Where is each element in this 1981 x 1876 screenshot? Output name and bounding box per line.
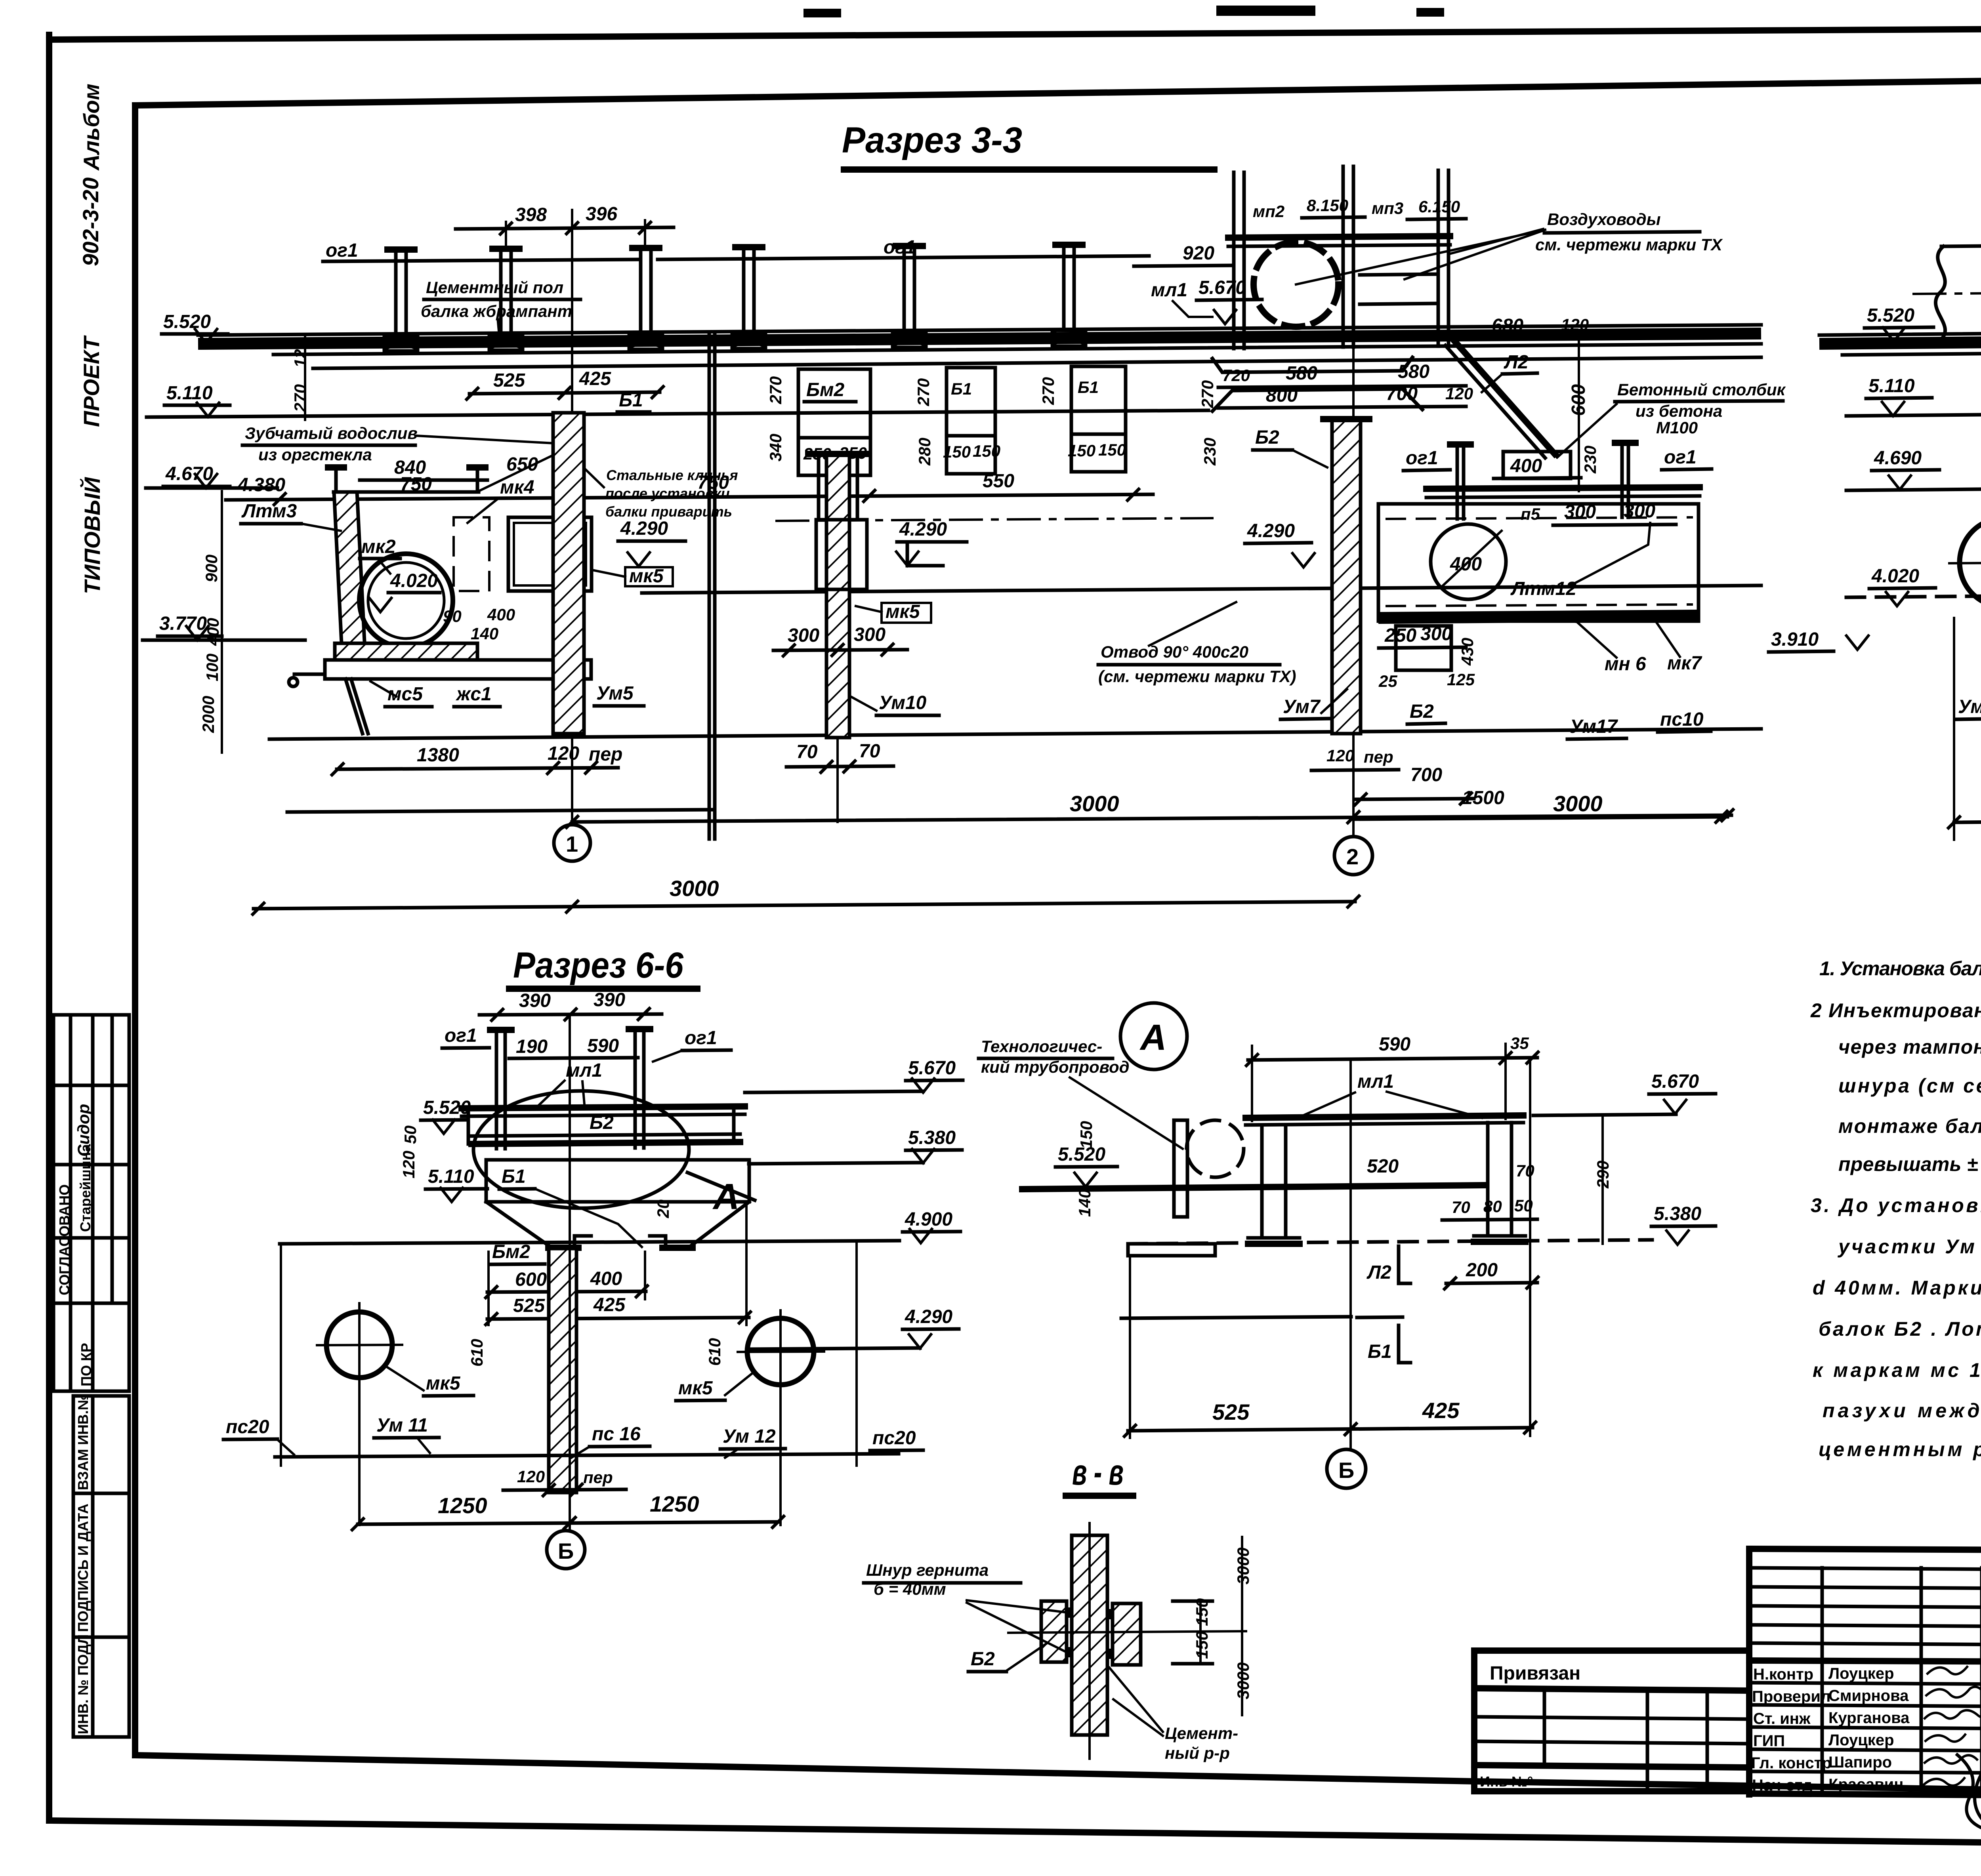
svg-text:270: 270 [291, 384, 309, 412]
svg-text:270: 270 [1198, 380, 1217, 408]
svg-text:мк5: мк5 [678, 1378, 713, 1399]
level line 4.900 long [280, 1241, 899, 1244]
text Vozduhovody [1405, 210, 1723, 279]
dims 150 150 3000 v-v [1173, 1537, 1252, 1715]
left margin vertical captions [78, 84, 105, 594]
lower tank right [1378, 501, 1699, 621]
label Um10 [852, 692, 939, 715]
label mk4 [468, 477, 534, 523]
svg-text:(см. чертежи марки ТХ): (см. чертежи марки ТХ) [1098, 667, 1296, 686]
label Ltm3 [241, 501, 341, 531]
level line 4.690 (7-7) [1846, 488, 1981, 490]
svg-text:ог1: ог1 [445, 1025, 477, 1046]
svg-text:к маркам мс 13 (см лист 17) .: к маркам мс 13 (см лист 17) . После уста… [1813, 1359, 1981, 1381]
svg-text:Лоуцкер: Лоуцкер [1828, 1731, 1894, 1749]
svg-text:5.670: 5.670 [1651, 1071, 1699, 1092]
svg-text:700: 700 [1386, 383, 1418, 404]
level line 5.110 [147, 410, 1208, 417]
svg-text:90: 90 [443, 607, 462, 625]
dim 390 390 [479, 989, 662, 1022]
svg-text:8.150: 8.150 [1307, 196, 1348, 215]
svg-text:цементным раствором.: цементным раствором. [1819, 1438, 1981, 1460]
svg-text:мк7: мк7 [1667, 653, 1702, 674]
label B1 leader [499, 1166, 642, 1247]
left slab v-v [1041, 1601, 1067, 1662]
svg-text:ог1: ог1 [1664, 447, 1697, 468]
svg-text:300: 300 [788, 625, 819, 646]
svg-text:20: 20 [654, 1199, 672, 1218]
svg-text:525: 525 [493, 370, 525, 391]
wall top posts [334, 467, 338, 492]
svg-text:Воздуховоды: Воздуховоды [1547, 210, 1661, 229]
concrete pad 400 [1494, 452, 1581, 479]
svg-text:Ум 7: Ум 7 [1958, 696, 1981, 717]
svg-text:жс1: жс1 [455, 684, 492, 705]
svg-text:190: 190 [516, 1036, 548, 1057]
svg-text:4.020: 4.020 [1871, 566, 1919, 587]
labels mk5 [386, 1367, 755, 1401]
dim 590 35 [1245, 1034, 1539, 1121]
svg-text:5.520: 5.520 [1867, 305, 1914, 326]
svg-text:4.670: 4.670 [165, 463, 213, 484]
title Razrez 6-6 [509, 945, 697, 989]
dim 190 590 [509, 1035, 638, 1058]
svg-text:балок Б2 . Лотки через закладн: балок Б2 . Лотки через закладные детали … [1819, 1318, 1981, 1340]
svg-text:Бм2: Бм2 [806, 379, 844, 400]
svg-text:пс 16: пс 16 [592, 1424, 641, 1445]
label ml1 [539, 1060, 602, 1105]
svg-text:5.520: 5.520 [423, 1097, 471, 1118]
text Zubchaty vodosliv [242, 424, 575, 490]
big circles 7-7 [1949, 515, 1981, 607]
svg-text:270: 270 [1039, 377, 1057, 405]
svg-text:3.770: 3.770 [159, 613, 207, 634]
slab band 7-7 [1819, 329, 1981, 355]
svg-text:150: 150 [1077, 1121, 1095, 1149]
level 4.290 step [895, 519, 967, 566]
svg-text:Ум10: Ум10 [879, 692, 927, 713]
axis line B A [1349, 1062, 1352, 1450]
main frame bottom [135, 1755, 1981, 1798]
svg-text:150: 150 [1098, 440, 1126, 459]
labels ms5 zhs1 Um5 [370, 681, 644, 707]
svg-text:3.910: 3.910 [1771, 629, 1819, 650]
label mk2 [360, 536, 400, 574]
top edge scan marks [803, 9, 841, 17]
level 4.020 in circle [368, 570, 440, 612]
svg-text:ВЗАМ ИНВ.№: ВЗАМ ИНВ.№ [75, 1394, 91, 1490]
trapezoid haunch under slab right [1212, 357, 1422, 411]
svg-text:300: 300 [854, 624, 886, 645]
svg-text:ГИП: ГИП [1753, 1732, 1785, 1750]
svg-text:Цементный пол: Цементный пол [426, 278, 563, 297]
floor slab [289, 660, 591, 686]
svg-text:398: 398 [515, 204, 547, 225]
dim line 4.380 750 750 550 [226, 471, 1153, 506]
axis circle B 6-6 [547, 1531, 585, 1569]
svg-text:превышать ± 5мм.: превышать ± 5мм. [1838, 1153, 1981, 1175]
level 3.770 [158, 613, 222, 640]
svg-text:Н.контр: Н.контр [1753, 1666, 1813, 1683]
dims 120per 700 1500 [1311, 746, 1728, 824]
concrete beam body 6-6 [486, 1160, 749, 1248]
svg-text:120: 120 [1326, 746, 1354, 765]
svg-text:ТИПОВЫЙ: ТИПОВЫЙ [80, 477, 105, 594]
axis circle 2 [1334, 837, 1372, 875]
svg-text:120: 120 [548, 743, 579, 764]
svg-text:300: 300 [1624, 501, 1655, 522]
level 5.520 A [1055, 1144, 1117, 1187]
text Otvod 90 [1098, 602, 1296, 686]
level line 3.770 [143, 639, 305, 642]
title Razrez 3-3 [842, 120, 1214, 170]
svg-text:Б1: Б1 [502, 1166, 526, 1187]
svg-text:590: 590 [587, 1035, 619, 1056]
svg-text:Зубчатый водослив: Зубчатый водослив [245, 424, 418, 442]
svg-text:6.150: 6.150 [1418, 197, 1460, 216]
svg-text:Б: Б [1338, 1458, 1354, 1483]
level 5.380 A [1651, 1203, 1716, 1245]
dim 1250 1250 6-6 [351, 1491, 785, 1531]
svg-text:Б2: Б2 [1410, 701, 1434, 722]
svg-text:Ум17: Ум17 [1570, 716, 1618, 737]
svg-text:70: 70 [796, 742, 818, 763]
hanging beams Bm2 B1 B1 [766, 366, 1219, 475]
svg-text:150: 150 [943, 442, 971, 461]
verticals 6-6 [281, 1014, 857, 1529]
svg-text:140: 140 [1075, 1189, 1094, 1217]
svg-text:Б1: Б1 [1078, 378, 1099, 397]
svg-text:Инв №°: Инв №° [1480, 1773, 1533, 1790]
svg-text:Бетонный столбик: Бетонный столбик [1617, 380, 1786, 399]
svg-text:Б1: Б1 [951, 379, 972, 398]
svg-text:1250: 1250 [650, 1491, 699, 1516]
svg-text:Курганова: Курганова [1828, 1709, 1910, 1727]
labels mn6 mk7 [1553, 620, 1702, 675]
mid line A [1121, 1317, 1351, 1318]
svg-text:425: 425 [1422, 1398, 1460, 1423]
svg-text:Б1: Б1 [619, 390, 643, 411]
labels Um7 Um17 ps10 [1281, 689, 1711, 739]
outer thick box [1749, 1549, 1981, 1552]
level 4.290 left arrow [1245, 520, 1315, 567]
svg-text:400: 400 [1510, 456, 1542, 477]
svg-text:150: 150 [973, 442, 1000, 460]
lower overall dim 3000 [252, 876, 1360, 915]
solid insert rect mk5 [508, 517, 592, 591]
title v-v [1066, 1452, 1133, 1496]
diagonal strut ms5 [345, 679, 368, 734]
svg-text:через тампонажные трубочки пос: через тампонажные трубочки после проклад… [1838, 1036, 1981, 1058]
level 4.290 mark [618, 518, 685, 566]
svg-text:300: 300 [1420, 623, 1452, 644]
level line 4.670 [146, 486, 277, 490]
svg-text:3000: 3000 [1070, 791, 1119, 816]
svg-text:700: 700 [1410, 765, 1442, 785]
svg-text:пс20: пс20 [226, 1417, 269, 1438]
svg-text:Ум5: Ум5 [596, 683, 634, 704]
svg-text:400: 400 [590, 1268, 622, 1289]
right-side levels between drawings [745, 1058, 963, 1349]
svg-text:400: 400 [204, 618, 222, 646]
svg-text:120: 120 [291, 340, 309, 368]
level 5.520 [162, 311, 228, 343]
svg-text:140: 140 [471, 624, 498, 643]
svg-text:920: 920 [1183, 243, 1214, 264]
tank floor hatch [335, 643, 477, 660]
dim 120 per 6-6 [503, 1467, 626, 1497]
dim 920 and 5.670 [1134, 243, 1262, 324]
svg-text:525: 525 [1212, 1399, 1250, 1424]
svg-text:мк4: мк4 [500, 477, 534, 498]
beam assembly 6-6 [462, 1106, 745, 1144]
svg-text:пер: пер [583, 1468, 613, 1487]
svg-text:4.290: 4.290 [1247, 520, 1295, 541]
axis line 1 [571, 210, 573, 823]
svg-text:580: 580 [1398, 361, 1429, 382]
beam top flange A [1246, 1115, 1523, 1125]
svg-text:120: 120 [1445, 384, 1473, 403]
dim 600 400 / 525 425 [485, 1204, 752, 1326]
svg-text:230: 230 [1581, 446, 1599, 474]
svg-text:5.380: 5.380 [1654, 1203, 1701, 1224]
svg-text:650: 650 [506, 454, 538, 475]
I-beam webs A [1248, 1123, 1525, 1244]
svg-text:Стальные клинья: Стальные клинья [606, 467, 738, 483]
svg-text:70: 70 [1452, 1198, 1470, 1216]
svg-text:125: 125 [1447, 670, 1475, 689]
hatched wall v-v [1072, 1523, 1107, 1759]
svg-text:Нач отд: Нач отд [1752, 1777, 1812, 1794]
svg-text:мп3: мп3 [1372, 199, 1403, 217]
svg-text:900: 900 [202, 555, 221, 582]
svg-text:Ум 11: Ум 11 [376, 1415, 428, 1436]
svg-text:610: 610 [705, 1338, 724, 1366]
text cementny r-r [1109, 1668, 1238, 1762]
rotated 610 dims [468, 1338, 724, 1367]
central hatched column 6-6 [549, 1249, 576, 1493]
svg-text:кий трубопровод: кий трубопровод [981, 1058, 1130, 1076]
svg-text:5.110: 5.110 [166, 383, 213, 404]
svg-text:1. Установка балок Б1,Б2 произ: 1. Установка балок Б1,Б2 производится с … [1819, 957, 1981, 980]
small dims 90 400 200 140 [443, 604, 586, 643]
svg-text:мк5: мк5 [886, 601, 920, 622]
outer border top [49, 26, 1981, 40]
small rotated 50 120 [399, 1125, 420, 1178]
axis circle B A [1327, 1449, 1366, 1488]
detail ellipse A [473, 1091, 755, 1217]
svg-text:мл1: мл1 [566, 1060, 602, 1081]
svg-text:270: 270 [766, 376, 785, 404]
svg-text:80: 80 [1483, 1197, 1502, 1216]
svg-text:270: 270 [914, 378, 933, 406]
svg-text:25: 25 [1378, 672, 1397, 690]
outer border left [46, 35, 52, 1821]
svg-text:Шапиро: Шапиро [1828, 1754, 1892, 1771]
svg-text:396: 396 [586, 204, 617, 225]
svg-text:мп2: мп2 [1253, 202, 1284, 221]
svg-text:балка жбрампант: балка жбрампант [421, 302, 572, 320]
svg-text:800: 800 [1266, 385, 1298, 406]
svg-text:СОГЛАСОВАНО: СОГЛАСОВАНО [56, 1184, 73, 1295]
svg-text:3000: 3000 [1553, 791, 1603, 816]
svg-text:мк5: мк5 [426, 1373, 461, 1394]
svg-text:Бм2: Бм2 [492, 1241, 530, 1262]
ceiling slab band [198, 325, 1761, 368]
label mk5 [594, 566, 673, 587]
svg-text:из бетона: из бетона [1636, 402, 1722, 420]
outer border bottom [49, 1821, 1981, 1849]
svg-text:Ум7: Ум7 [1283, 696, 1321, 717]
main frame left [132, 105, 138, 1755]
wall joint double vertical at x1790 [709, 335, 715, 839]
svg-text:ный р-р: ный р-р [1165, 1744, 1230, 1762]
level 4.670 [163, 463, 230, 488]
level 4.290 long line [642, 585, 1761, 593]
right hatched column Um5 [553, 413, 584, 734]
diagonal strut L2 [1445, 341, 1555, 458]
svg-text:Ум 12: Ум 12 [723, 1426, 776, 1447]
svg-text:ог1: ог1 [685, 1028, 717, 1049]
dim 525 425 [466, 368, 664, 400]
svg-text:590: 590 [1379, 1034, 1410, 1055]
svg-text:Привязан: Привязан [1490, 1663, 1580, 1684]
axis line 2 [1352, 277, 1355, 835]
svg-text:4.020: 4.020 [390, 570, 438, 591]
svg-text:50: 50 [401, 1125, 420, 1144]
rotated small dims left [199, 337, 309, 753]
svg-text:пазухи между ними и марками мс: пазухи между ними и марками мс13 заполня… [1823, 1399, 1981, 1422]
circles mk5 6-6 [317, 1303, 824, 1525]
svg-text:2: 2 [1346, 844, 1359, 869]
svg-text:680: 680 [1492, 315, 1523, 336]
og1 labels 6-6 [442, 1025, 731, 1062]
label mk5 mid [856, 601, 931, 623]
level 5.520 6-6 [421, 1097, 471, 1134]
svg-text:б = 40мм: б = 40мм [874, 1580, 946, 1598]
svg-text:400: 400 [487, 605, 515, 624]
signature rows [1749, 1683, 1981, 1684]
beam under posts [1426, 487, 1700, 498]
svg-text:425: 425 [579, 368, 611, 389]
dim 70 70 [786, 738, 893, 822]
svg-text:мк2: мк2 [361, 536, 396, 557]
svg-text:5.670: 5.670 [908, 1058, 956, 1079]
svg-text:Ст. инж: Ст. инж [1753, 1710, 1811, 1727]
svg-text:ПРОЕКТ: ПРОЕКТ [79, 335, 104, 427]
svg-text:Лтм12: Лтм12 [1510, 578, 1576, 599]
svg-text:1250: 1250 [438, 1493, 487, 1518]
bottom line of walls [269, 729, 1761, 739]
svg-text:390: 390 [519, 990, 551, 1011]
signatures squiggles [1924, 1667, 1981, 1831]
dash-dot mid line [777, 518, 1212, 521]
svg-text:пс10: пс10 [1660, 709, 1704, 730]
text shnur gernita [864, 1561, 1066, 1652]
pipe circle mk2 [359, 554, 453, 647]
svg-text:ПОДПИСЬ И ДАТА: ПОДПИСЬ И ДАТА [75, 1504, 91, 1632]
rotated dims A [1075, 1117, 1612, 1244]
svg-text:Б2: Б2 [971, 1649, 995, 1670]
circle A [1120, 1003, 1187, 1070]
svg-text:4.290: 4.290 [899, 519, 947, 540]
svg-text:4.290: 4.290 [905, 1306, 952, 1327]
svg-text:пс20: пс20 [872, 1428, 916, 1449]
svg-text:5.110: 5.110 [428, 1166, 474, 1187]
center hatched wall Um7 [1323, 419, 1369, 734]
posts og1 on beam [1403, 442, 1712, 519]
axis circle 1 [554, 825, 590, 861]
svg-text:А: А [712, 1176, 739, 1217]
small dims 70 80 50 A [1442, 1161, 1537, 1220]
svg-text:1500: 1500 [1462, 787, 1504, 808]
dim 840 650 [360, 454, 538, 480]
svg-text:70: 70 [859, 741, 880, 762]
svg-text:Гл. констр: Гл. констр [1751, 1754, 1832, 1772]
label B1 [617, 390, 650, 412]
svg-text:4.380: 4.380 [237, 475, 285, 496]
svg-text:5.380: 5.380 [908, 1127, 956, 1148]
level 5.110 6-6 [426, 1166, 487, 1202]
level marks left of 7-7 [1769, 305, 1939, 652]
big cylinder walls [1914, 242, 1981, 339]
left stamp table lower (Инв №, Подпись и дата, Взам инв №) [73, 1394, 129, 1737]
svg-text:мн 6: мн 6 [1605, 654, 1646, 675]
posts on slab [384, 244, 1086, 351]
tank top edge [334, 490, 479, 494]
svg-text:150: 150 [1193, 1631, 1211, 1659]
lower-left ground line [287, 810, 713, 812]
svg-text:в - в: в - в [1072, 1452, 1124, 1493]
svg-text:1380: 1380 [417, 745, 459, 766]
svg-text:Сидор: Сидор [74, 1104, 93, 1157]
svg-text:мл1: мл1 [1357, 1071, 1394, 1092]
dim line 3000 3000 [565, 791, 1734, 829]
svg-text:4.690: 4.690 [1874, 448, 1922, 469]
svg-text:Б: Б [558, 1539, 574, 1563]
svg-text:1: 1 [566, 831, 578, 856]
svg-text:М100: М100 [1656, 418, 1698, 437]
svg-text:Разрез 3-3: Разрез 3-3 [842, 120, 1022, 160]
svg-text:4.290: 4.290 [620, 518, 668, 539]
svg-text:425: 425 [593, 1295, 626, 1315]
level line 5.110 (7-7) [1846, 410, 1981, 416]
svg-text:430: 430 [1458, 638, 1477, 666]
svg-text:230: 230 [1200, 438, 1219, 466]
svg-text:5.670: 5.670 [1199, 277, 1246, 298]
svg-text:2 Инъектирование стыка балки Б: 2 Инъектирование стыка балки Б1;Б2с пане… [1810, 999, 1981, 1022]
svg-text:120: 120 [517, 1467, 545, 1486]
svg-text:ог1: ог1 [326, 240, 358, 261]
level 5.670 A [1533, 1071, 1716, 1115]
dim 680 120 600 230 [1482, 315, 1599, 491]
svg-text:150: 150 [1068, 441, 1095, 460]
dim 1250 1250 7-7 [1947, 616, 1981, 840]
svg-text:Б1: Б1 [1368, 1341, 1392, 1362]
dim 300 300 mid [773, 624, 907, 657]
svg-text:Разрез 6-6: Разрез 6-6 [513, 945, 684, 986]
dims 720 580 580 800 700 120 [1218, 361, 1473, 408]
svg-text:340: 340 [766, 434, 785, 461]
svg-text:2000: 2000 [199, 696, 218, 733]
svg-text:5.110: 5.110 [1868, 376, 1915, 397]
svg-text:Проверил: Проверил [1752, 1688, 1830, 1705]
slab dashed line A [1128, 1240, 1652, 1256]
left panel + dashed circle A [1174, 1120, 1244, 1217]
bottom labels 6-6 [223, 1415, 923, 1458]
posts 6-6 [490, 1028, 650, 1149]
dim 1380 120 per [331, 743, 622, 776]
